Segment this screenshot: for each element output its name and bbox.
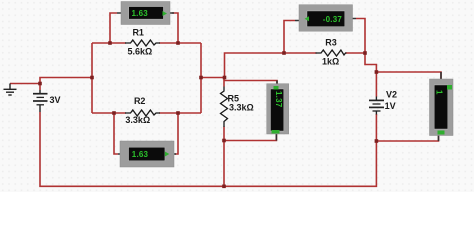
junction node V2 bottom xyxy=(375,139,379,143)
junction node bottom rail xyxy=(222,185,226,189)
junction node right rail xyxy=(199,76,203,80)
wire voltmeter U2 right lead xyxy=(175,113,178,154)
wire R3 right to node xyxy=(346,52,366,54)
svg-text:3.3kΩ: 3.3kΩ xyxy=(125,115,150,125)
wire battery junction up and right to parallel-network left node xyxy=(40,78,92,84)
wire R5 branch vertical xyxy=(223,78,225,87)
wire R1 row left xyxy=(92,42,126,44)
wire middle node up to R3 row xyxy=(225,53,317,78)
svg-text:1kΩ: 1kΩ xyxy=(322,57,339,67)
resistor R5 (vertical) xyxy=(221,87,228,128)
wire voltmeter U3 left lead xyxy=(284,21,295,54)
svg-text:3V: 3V xyxy=(50,95,61,105)
junction node middle branch xyxy=(223,76,227,80)
wire V2 bottom to lower node xyxy=(375,114,377,141)
voltmeter U4 (reads 1.37, across R5, vertical) xyxy=(267,81,289,141)
battery V2 xyxy=(369,97,384,115)
voltmeter U2 (reads 1.63, across R2) xyxy=(118,141,176,167)
junction node R2 right tap xyxy=(176,111,180,115)
svg-text:R3: R3 xyxy=(325,38,337,48)
wire voltmeter U3 right lead xyxy=(356,19,365,54)
voltmeter U5 (across V2, vertical) xyxy=(430,72,454,141)
junction node R2 left tap xyxy=(112,111,116,115)
resistor R2 xyxy=(125,110,160,116)
wire R5 bottom to bottom rail xyxy=(223,127,225,187)
wire voltmeter U1 left lead xyxy=(110,13,117,43)
junction node R3 right tap xyxy=(363,51,367,55)
wire battery V1 top stub xyxy=(39,84,41,91)
svg-text:1.63: 1.63 xyxy=(132,9,149,18)
wire voltmeter U2 left lead xyxy=(114,113,118,154)
svg-text:1.63: 1.63 xyxy=(132,150,149,159)
junction node left rail xyxy=(90,76,94,80)
wire ground to battery junction xyxy=(10,83,40,85)
svg-text:R2: R2 xyxy=(134,96,146,106)
junction node R3 left tap xyxy=(282,51,286,55)
junction node R1 left tap xyxy=(108,41,112,45)
wire V2 node to voltmeter U5 top xyxy=(376,72,441,79)
wire bottom rail xyxy=(40,112,376,186)
svg-text:1: 1 xyxy=(435,90,444,95)
wire voltmeter U4 bottom lead xyxy=(224,134,276,141)
resistor R1 xyxy=(125,40,160,46)
svg-text:5.6kΩ: 5.6kΩ xyxy=(128,47,153,57)
wire right vertical of parallel network xyxy=(200,43,202,113)
svg-text:3.3kΩ: 3.3kΩ xyxy=(229,103,254,113)
svg-text:R1: R1 xyxy=(132,28,144,38)
background grid xyxy=(0,0,474,192)
wire R3 node to V2 branch jog xyxy=(365,53,376,72)
wire voltmeter U4 top lead xyxy=(224,81,277,84)
junction node R1 right tap xyxy=(176,41,180,45)
wire R1 row right xyxy=(159,42,201,44)
voltmeter U3 (reads -0.37, across R3) xyxy=(295,5,356,32)
wire voltmeter U1 right lead xyxy=(172,13,178,43)
junction node V2 top xyxy=(375,70,379,74)
wire R2 row right xyxy=(159,112,201,114)
wire right node to middle node xyxy=(201,77,225,79)
resistor R3 xyxy=(316,50,347,56)
svg-text:-0.37: -0.37 xyxy=(323,15,343,24)
junction node R5 bottom xyxy=(222,139,226,143)
voltmeter U1 (reads 1.63, across R1) xyxy=(117,2,174,25)
battery V1 xyxy=(33,90,48,112)
junction node at battery top xyxy=(38,82,42,86)
wire V2 top stub xyxy=(375,72,377,97)
wire R2 row left xyxy=(92,112,126,114)
ground xyxy=(4,84,17,96)
wire left vertical of parallel network xyxy=(91,43,93,113)
wire lower node to voltmeter U5 bottom xyxy=(376,136,438,142)
svg-text:1V: 1V xyxy=(385,101,396,111)
svg-text:1.37: 1.37 xyxy=(274,91,283,108)
svg-text:V2: V2 xyxy=(386,90,397,100)
